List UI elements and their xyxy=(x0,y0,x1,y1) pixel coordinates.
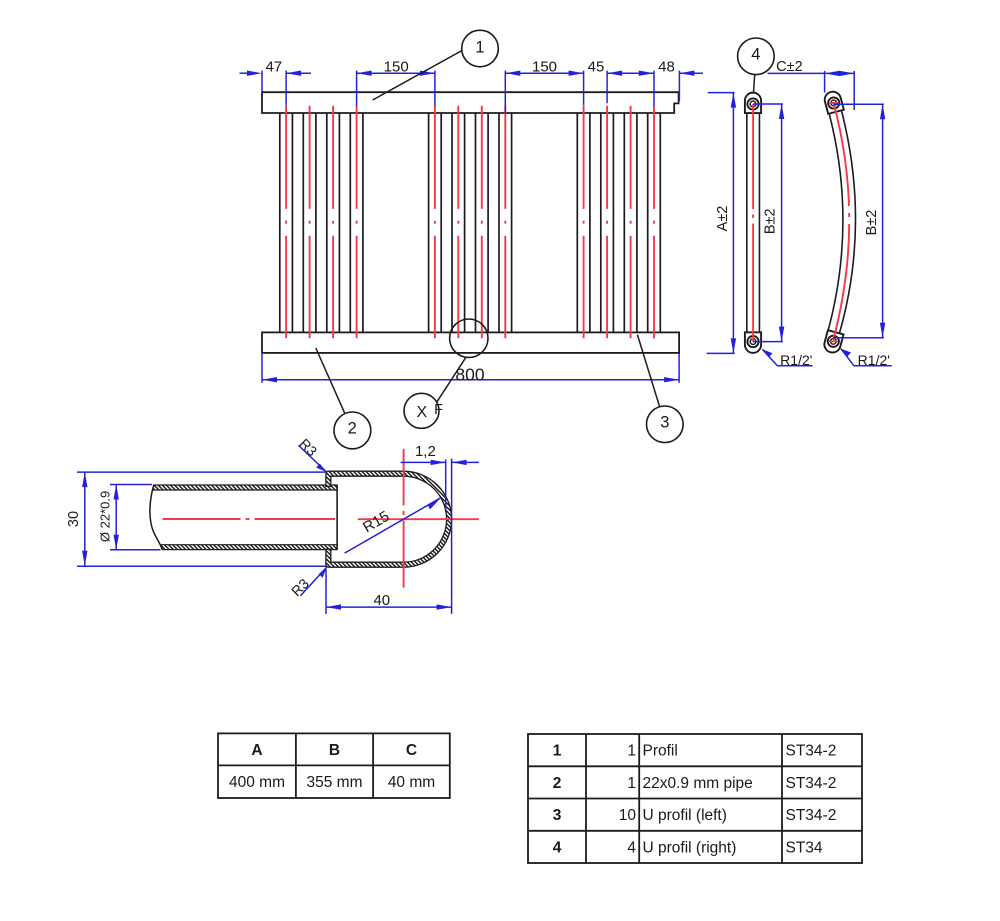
svg-text:X: X xyxy=(416,404,427,421)
dim line 800 xyxy=(262,379,679,381)
extension line pipe9 xyxy=(583,71,585,106)
leader detail X xyxy=(437,357,466,402)
A dim extension bottom xyxy=(707,352,735,354)
pipe 11 xyxy=(623,113,625,332)
curved tube right edge xyxy=(840,105,856,333)
dim line 45-48 xyxy=(607,72,654,74)
B right extension top xyxy=(834,103,884,105)
svg-text:1: 1 xyxy=(627,775,636,792)
DETAIL VIEW X xyxy=(150,449,479,588)
dim line 48 tail right xyxy=(679,72,703,74)
800 extension left xyxy=(261,354,263,383)
arrow dia bottom xyxy=(114,535,119,550)
centerline pipe 7 xyxy=(481,106,483,339)
pipe break line xyxy=(150,485,162,550)
top fitting (U profil) xyxy=(745,93,761,113)
svg-text:4: 4 xyxy=(627,839,636,856)
curved bottom fitting xyxy=(823,330,844,354)
30 dim line xyxy=(84,472,86,566)
svg-text:Profil: Profil xyxy=(643,743,678,760)
svg-text:R1/2': R1/2' xyxy=(858,352,890,368)
svg-text:C: C xyxy=(406,742,417,759)
svg-text:ST34-2: ST34-2 xyxy=(786,807,837,824)
svg-text:A: A xyxy=(251,742,262,759)
arrow 1,2 left xyxy=(431,460,446,465)
U profil cap (hatched wall band) xyxy=(326,471,452,567)
arrow R12 right xyxy=(841,349,851,357)
FRONT VIEW DIMENSIONS (blue) xyxy=(240,71,704,383)
pipe 9 xyxy=(576,113,578,332)
svg-text:40 mm: 40 mm xyxy=(388,774,435,791)
1,2 dim line right xyxy=(452,461,479,463)
arrow C left xyxy=(825,71,840,76)
B left extension bottom xyxy=(753,341,783,343)
C dim line xyxy=(768,72,855,74)
R3 top leader xyxy=(299,445,327,472)
arrow R3 bottom xyxy=(319,567,327,578)
dim line 47 tail left xyxy=(240,72,248,74)
A dim line xyxy=(732,93,734,354)
svg-text:10: 10 xyxy=(619,807,637,824)
svg-text:4: 4 xyxy=(751,45,760,63)
straight tube xyxy=(747,108,760,337)
arrow 30 top xyxy=(82,472,87,487)
arrow R12 left xyxy=(762,349,772,357)
arrow 150a right xyxy=(420,71,435,76)
top collector bar xyxy=(262,92,679,113)
arrow C right xyxy=(839,71,854,76)
SIDE VIEW DIMENSIONS (blue) xyxy=(707,71,892,366)
pipe 2 xyxy=(302,113,304,332)
bottom fitting (U profil) xyxy=(745,332,761,353)
table2 frame xyxy=(528,734,862,863)
svg-text:ST34: ST34 xyxy=(786,839,823,856)
arrow 150a left xyxy=(357,71,372,76)
arrow 30 bottom xyxy=(82,551,87,566)
svg-text:ST34-2: ST34-2 xyxy=(786,775,837,792)
arrow 150b left xyxy=(505,71,520,76)
DETAIL VIEW DIMENSIONS (blue) xyxy=(77,445,479,614)
1,2 dim line left xyxy=(401,461,446,463)
B left extension top xyxy=(753,103,783,105)
extension line pipe4 xyxy=(356,71,358,106)
svg-text:1: 1 xyxy=(475,39,484,57)
arrow B right top xyxy=(880,104,885,119)
svg-text:1,2: 1,2 xyxy=(415,443,436,460)
pipe 7 xyxy=(475,113,477,332)
curved top fitting xyxy=(823,90,844,114)
svg-text:C±2: C±2 xyxy=(776,59,803,75)
svg-text:F: F xyxy=(434,402,443,418)
bottom fitting boss circle xyxy=(747,336,758,347)
A dim extension top xyxy=(708,92,735,94)
leader 2 xyxy=(316,348,345,414)
B left dim line xyxy=(781,104,783,342)
arrow 150b right xyxy=(569,71,584,76)
dim line 47 tail right xyxy=(286,72,311,74)
curved tube left edge xyxy=(827,107,843,335)
pipe 5 xyxy=(428,113,430,332)
centerline pipe 2 xyxy=(309,106,311,339)
straight profile red centerline xyxy=(752,104,754,342)
extension line pipe1 xyxy=(285,71,287,106)
R1/2 right leader xyxy=(841,349,892,366)
cap red cross centerlines xyxy=(358,449,479,588)
FRONT VIEW xyxy=(280,113,661,332)
30 extension bottom xyxy=(77,565,326,567)
pipe 1 xyxy=(279,113,281,332)
centerline pipe 9 xyxy=(583,106,585,339)
TABLE parts list xyxy=(528,734,862,863)
TABLE A/B/C xyxy=(218,733,450,798)
centerline pipe 4 xyxy=(356,106,358,339)
svg-text:A±2: A±2 xyxy=(715,206,731,232)
extension line pipe5 xyxy=(434,71,436,106)
arrow A bottom xyxy=(731,338,736,353)
pipe end line xyxy=(336,485,338,550)
svg-text:B: B xyxy=(329,742,340,759)
detail label circle X xyxy=(404,393,443,428)
pipe 4 xyxy=(349,113,351,332)
pipe 12 xyxy=(647,113,649,332)
arrow 48 right xyxy=(679,71,694,76)
leader 4 xyxy=(754,75,755,93)
arrow B left top xyxy=(779,104,784,119)
svg-text:30: 30 xyxy=(66,511,82,527)
C extension left xyxy=(824,71,826,93)
svg-text:3: 3 xyxy=(553,807,562,824)
centerline pipe 3 xyxy=(332,106,334,339)
svg-text:150: 150 xyxy=(384,58,409,75)
arrow 40 right xyxy=(437,604,452,609)
extension line pipe12 xyxy=(653,71,655,106)
extension line pipe10 xyxy=(606,71,608,104)
svg-text:2: 2 xyxy=(553,775,562,792)
svg-text:47: 47 xyxy=(265,58,282,75)
svg-text:B±2: B±2 xyxy=(762,208,778,234)
table1 frame xyxy=(218,733,450,798)
svg-text:4: 4 xyxy=(553,839,562,856)
pipe red centerline xyxy=(163,518,336,520)
arrow 800 left xyxy=(262,377,277,382)
svg-text:Ø 22*0.9: Ø 22*0.9 xyxy=(97,491,112,542)
leader 1 xyxy=(373,51,462,101)
R3 bottom leader xyxy=(301,567,327,596)
callout circle 3 xyxy=(647,406,684,443)
arrow 48 left xyxy=(639,71,654,76)
R15 leader xyxy=(345,498,441,553)
centerline pipe 11 xyxy=(630,106,632,339)
R1/2 left leader xyxy=(762,349,812,366)
centerline pipe 12 xyxy=(653,106,655,339)
arrow 800 right xyxy=(664,377,679,382)
centerline pipe 8 xyxy=(504,106,506,339)
dia extension bottom xyxy=(110,549,161,551)
arrow 40 left xyxy=(326,604,341,609)
svg-text:355 mm: 355 mm xyxy=(307,774,363,791)
svg-text:45: 45 xyxy=(588,58,605,75)
dim line 150 second xyxy=(505,72,583,74)
40 dim line xyxy=(326,606,452,608)
arrow B right bottom xyxy=(880,323,885,338)
40 extension left xyxy=(325,569,327,614)
extension line left bar edge xyxy=(261,71,263,93)
svg-text:3: 3 xyxy=(660,413,669,431)
svg-text:R1/2': R1/2' xyxy=(780,352,812,368)
arrow 1,2 right xyxy=(452,460,467,465)
curved profile red centerline xyxy=(833,104,849,341)
arrow 47 right xyxy=(286,71,301,76)
detail circle X on bottom bar xyxy=(450,319,488,357)
centerline pipe 5 xyxy=(434,106,436,339)
arrow 47 left xyxy=(247,71,262,76)
svg-text:ST34-2: ST34-2 xyxy=(786,743,837,760)
SIDE VIEW: curved profile xyxy=(823,90,856,354)
1,2 extension inner xyxy=(445,459,447,510)
svg-text:40: 40 xyxy=(373,592,390,609)
svg-text:400 mm: 400 mm xyxy=(229,774,285,791)
svg-text:1: 1 xyxy=(627,743,636,760)
extension line right bar edge xyxy=(678,71,680,101)
red pipe centerlines xyxy=(286,106,654,339)
svg-text:B±2: B±2 xyxy=(864,210,880,236)
svg-text:22x0.9 mm pipe: 22x0.9 mm pipe xyxy=(643,775,753,792)
top fitting boss circle xyxy=(747,98,758,109)
SIDE VIEW: straight profile xyxy=(745,93,761,353)
1,2 / 40 extension outer xyxy=(451,459,453,614)
pipe 8 xyxy=(498,113,500,332)
dia dim line xyxy=(115,485,117,550)
svg-text:2: 2 xyxy=(348,419,357,437)
30 extension top xyxy=(77,471,326,473)
callout circle 2 xyxy=(334,412,371,449)
svg-text:48: 48 xyxy=(658,58,675,75)
dia extension top xyxy=(110,484,152,486)
leader 3 xyxy=(637,335,659,407)
arrow B left bottom xyxy=(779,327,784,342)
B right extension bottom xyxy=(833,337,884,339)
arrow dia top xyxy=(114,485,119,500)
centerline pipe 1 xyxy=(285,106,287,339)
svg-text:1: 1 xyxy=(553,743,562,760)
pipe bottom wall (hatched) xyxy=(160,545,337,550)
svg-text:150: 150 xyxy=(532,58,557,75)
centerline pipe 10 xyxy=(606,106,608,339)
dim line 150 first xyxy=(357,72,435,74)
arrow A top xyxy=(731,93,736,108)
800 extension right xyxy=(678,354,680,383)
C extension right / B right top xyxy=(853,71,855,110)
pipe 10 xyxy=(600,113,602,332)
arrow 45 right xyxy=(607,71,622,76)
arrow R15 xyxy=(427,498,441,510)
arrow R3 top xyxy=(316,464,327,472)
callout circle 4 xyxy=(738,38,775,75)
svg-text:U profil (right): U profil (right) xyxy=(643,839,737,856)
extension line pipe8 xyxy=(504,71,506,114)
centerline pipe 6 xyxy=(457,106,459,339)
svg-text:U profil (left): U profil (left) xyxy=(643,807,727,824)
callout circle 1 xyxy=(462,30,499,67)
bottom collector bar xyxy=(262,332,679,353)
pipe top wall (hatched) xyxy=(153,485,338,490)
pipe 6 xyxy=(451,113,453,332)
pipe 3 xyxy=(326,113,328,332)
B right dim line xyxy=(882,104,884,338)
